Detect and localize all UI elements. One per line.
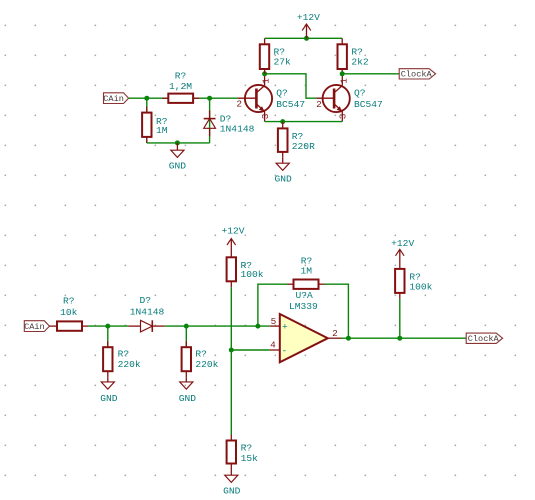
svg-text:+12V: +12V <box>297 12 320 23</box>
junction emitter wire <box>280 119 285 124</box>
resistor R3 27k <box>260 38 291 74</box>
svg-text:2: 2 <box>316 99 322 110</box>
resistor R5 220R <box>278 122 315 158</box>
resistor R7 10k <box>50 296 89 331</box>
svg-text:220k: 220k <box>118 359 141 370</box>
svg-text:R?: R? <box>195 349 207 360</box>
resistor R8 220k <box>182 326 219 377</box>
junction Q1 collector <box>262 71 267 76</box>
junction at GND stem (top) <box>175 140 180 145</box>
junction opamp - input <box>229 348 234 353</box>
svg-text:CAin: CAin <box>24 322 45 332</box>
svg-text:1: 1 <box>338 78 349 84</box>
wire Q2 collector to ClockA <box>342 73 399 75</box>
global label ClockA (bottom) <box>466 333 502 344</box>
diode D2 1N4148 (bottom) <box>128 295 164 332</box>
op-amp U1 LM339 <box>270 290 341 362</box>
wire R1/D1 bottom to GND <box>147 142 210 144</box>
wire output to ClockA <box>341 337 466 339</box>
ground GND (below 220R) <box>275 158 293 185</box>
svg-text:+: + <box>282 322 288 333</box>
resistor R9 100k (left) <box>227 257 264 287</box>
svg-text:1,2M: 1,2M <box>169 81 192 92</box>
ground GND (below R6) <box>100 377 118 404</box>
svg-text:3: 3 <box>260 113 271 119</box>
ground GND (below R8) <box>179 377 197 404</box>
wire emitters Q1-Q2 <box>265 121 343 123</box>
power +12V (bottom left) <box>221 226 244 258</box>
svg-text:15k: 15k <box>241 453 259 464</box>
resistor R4 2k2 <box>338 38 369 74</box>
wire Q1 collector to Q2 base <box>265 74 317 98</box>
svg-text:R?: R? <box>241 442 253 453</box>
resistor R6 220k <box>103 326 141 377</box>
svg-text:+12V: +12V <box>391 238 414 249</box>
svg-text:BC547: BC547 <box>276 99 305 110</box>
junction at R8 top <box>184 324 189 329</box>
resistor R2 1,2M <box>162 70 199 103</box>
wire - input <box>231 349 269 351</box>
diode D1 1N4148 (top) <box>204 98 255 143</box>
svg-text:2: 2 <box>332 328 338 339</box>
wire D2 to opamp <box>165 325 270 327</box>
svg-text:2k2: 2k2 <box>351 56 369 67</box>
svg-text:220R: 220R <box>292 141 315 152</box>
wire CAin to Q1 base (top) <box>129 97 238 99</box>
transistor Q2 BC547 (right) <box>316 74 383 122</box>
svg-text:Q?: Q? <box>354 87 366 98</box>
svg-text:CAin: CAin <box>103 94 124 104</box>
svg-text:27k: 27k <box>274 56 292 67</box>
svg-text:GND: GND <box>275 174 293 185</box>
svg-text:10k: 10k <box>60 307 78 318</box>
svg-text:U?A: U?A <box>296 290 314 301</box>
svg-text:D?: D? <box>140 295 152 306</box>
svg-text:GND: GND <box>179 393 197 404</box>
transistor Q1 BC547 (left) <box>236 74 305 122</box>
svg-text:4: 4 <box>270 339 276 350</box>
junction opamp + input <box>255 324 260 329</box>
svg-text:R?: R? <box>63 296 75 307</box>
svg-text:GND: GND <box>223 486 241 497</box>
ground GND (top-left) <box>169 143 187 172</box>
junction at R12 bottom <box>397 336 402 341</box>
ground GND (below R11) <box>223 470 241 497</box>
+12V power rail wire (top) <box>265 37 343 39</box>
svg-text:1M: 1M <box>300 266 312 277</box>
svg-text:-: - <box>282 345 288 356</box>
svg-text:220k: 220k <box>195 359 218 370</box>
wire rail R9 down to R11 <box>230 287 232 434</box>
junction at R6 top <box>105 324 110 329</box>
svg-text:GND: GND <box>169 160 187 171</box>
resistor R1 1M <box>142 98 168 143</box>
svg-text:LM339: LM339 <box>289 301 318 312</box>
svg-text:GND: GND <box>100 393 118 404</box>
resistor R12 100k (right) <box>395 269 433 338</box>
svg-text:1N4148: 1N4148 <box>130 306 165 317</box>
junction Q2 collector <box>340 71 345 76</box>
svg-text:1N4148: 1N4148 <box>220 123 255 134</box>
junction at R1 top <box>144 96 149 101</box>
resistor R10 1M (feedback) <box>258 256 349 339</box>
svg-text:2: 2 <box>236 98 242 109</box>
svg-text:R?: R? <box>175 70 187 81</box>
junction at D1 top <box>207 96 212 101</box>
global label CAin (bottom) <box>24 321 49 332</box>
power +12V (top) <box>297 12 320 38</box>
global label ClockA (top) <box>399 69 435 80</box>
junction opamp output <box>346 336 351 341</box>
svg-text:ClockA: ClockA <box>468 334 500 344</box>
power +12V (bottom right) <box>391 238 414 269</box>
svg-text:1: 1 <box>261 78 272 84</box>
wire R7 to D2 <box>88 325 128 327</box>
svg-text:R?: R? <box>118 349 130 360</box>
svg-text:100k: 100k <box>241 269 264 280</box>
svg-text:+12V: +12V <box>221 226 244 237</box>
svg-text:ClockA: ClockA <box>401 70 433 80</box>
svg-text:3: 3 <box>338 113 349 119</box>
svg-text:5: 5 <box>271 316 277 327</box>
svg-text:BC547: BC547 <box>354 99 383 110</box>
svg-text:100k: 100k <box>409 281 432 292</box>
svg-text:1M: 1M <box>156 125 168 136</box>
junction +12V rail <box>304 36 309 41</box>
global label CAin (top) <box>103 93 128 104</box>
resistor R11 15k <box>227 435 259 470</box>
svg-text:Q?: Q? <box>276 87 288 98</box>
